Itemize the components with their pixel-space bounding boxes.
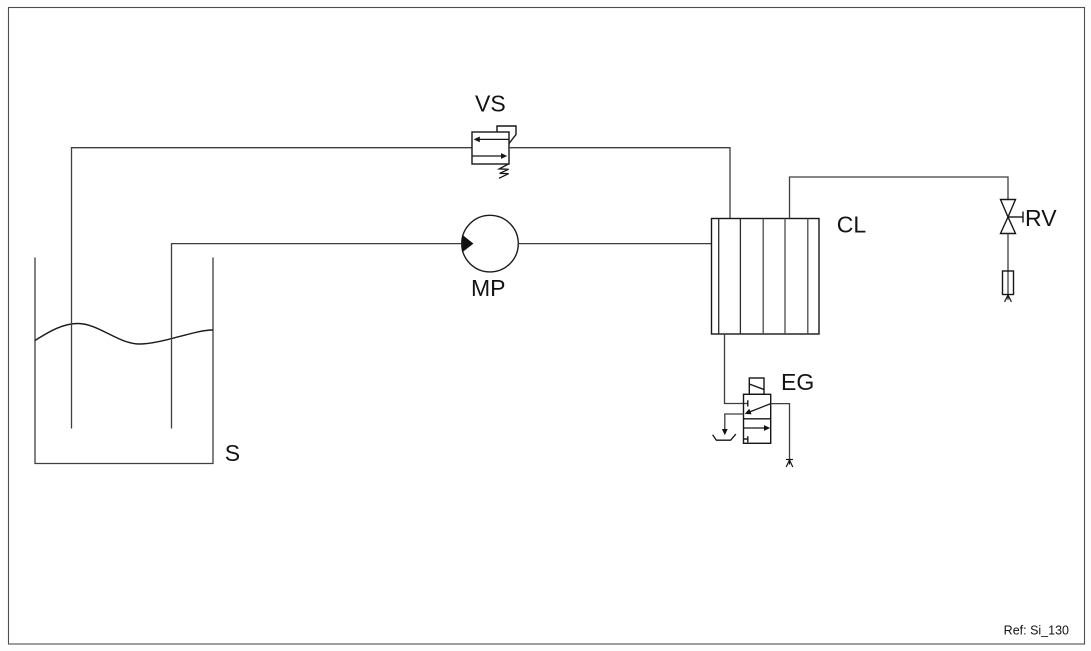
valve RV upper triangle <box>1001 200 1016 218</box>
valve EG lower flow arrow <box>744 425 771 431</box>
cooler CL body <box>712 219 820 335</box>
svg-text:EG: EG <box>781 369 814 395</box>
wire: VS to cooler CL top left port <box>509 148 730 219</box>
wire: valve RV to silencer <box>1007 234 1009 295</box>
svg-text:S: S <box>225 440 240 466</box>
svg-text:MP: MP <box>471 275 506 301</box>
valve RV handle <box>1008 212 1023 223</box>
cooler CL fin line 4 <box>784 219 786 335</box>
wire: valve EG right port to exhaust <box>771 404 790 460</box>
valve VS spring <box>499 164 509 178</box>
drain arrowhead <box>722 429 728 435</box>
svg-text:VS: VS <box>475 91 506 117</box>
exhaust symbol below EG <box>786 460 793 468</box>
valve VS upper flow arrow <box>474 137 509 143</box>
valve EG solenoid <box>749 378 764 394</box>
valve VS lower flow arrow <box>472 153 507 159</box>
exhaust symbol below silencer <box>1005 295 1012 302</box>
wire: tank suction pipe to pump MP <box>172 244 462 429</box>
cooler CL fin line 5 <box>807 219 809 335</box>
wire: pump MP to cooler CL <box>518 243 711 245</box>
silencer body below RV <box>1003 271 1014 295</box>
cooler CL fin line 3 <box>762 219 764 335</box>
wire: cooler CL top right port to valve RV <box>790 177 1009 219</box>
tank S liquid surface wave <box>35 324 213 345</box>
cooler CL fin line 1 <box>718 219 720 335</box>
valve EG blocked port tick lower <box>744 436 748 442</box>
svg-text:RV: RV <box>1025 205 1057 231</box>
pump MP circle <box>462 215 519 272</box>
wire: tank suction pipe to VS valve <box>72 148 473 429</box>
valve VS body <box>472 132 509 164</box>
cooler CL fin line 2 <box>739 219 741 335</box>
valve EG blocked port tick upper <box>747 400 749 406</box>
wire: valve EG left port to drain <box>725 414 744 430</box>
valve EG body <box>744 394 771 443</box>
svg-text:Ref: Si_130: Ref: Si_130 <box>1004 624 1069 638</box>
tank S reservoir walls <box>35 258 213 464</box>
valve RV lower triangle <box>1001 217 1016 234</box>
valve EG diagonal flow path <box>745 404 771 415</box>
wire: cooler CL bottom port to valve EG <box>725 334 748 404</box>
valve VS pilot tab <box>497 126 516 144</box>
svg-text:CL: CL <box>837 211 867 237</box>
pump MP direction triangle <box>462 235 473 253</box>
drain pan symbol <box>713 434 736 440</box>
